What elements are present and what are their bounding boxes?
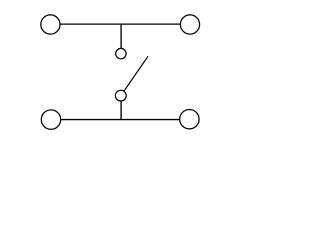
contact circle top (fixed contact) [116, 48, 126, 58]
switch lever (pole arm) [124, 56, 148, 91]
terminal circle bottom-right [180, 110, 199, 129]
contact circle bottom (moving pole pivot) [115, 90, 126, 101]
wire bottom contact riser [120, 101, 122, 119]
terminal circle top-right [180, 15, 199, 34]
wire bottom horizontal [61, 119, 179, 121]
terminal circle top-left [41, 15, 60, 34]
wire top horizontal [60, 23, 180, 25]
terminal circle bottom-left [41, 110, 60, 129]
wire top contact drop [120, 24, 122, 48]
